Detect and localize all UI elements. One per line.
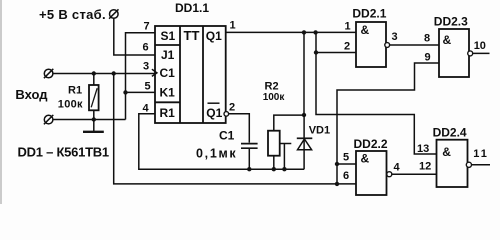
gate DD2.4 (437, 140, 472, 187)
wire DD2.4 output (472, 164, 491, 166)
svg-text:Q1: Q1 (206, 106, 222, 120)
wire DD2.1 out to DD2.3 pin 8 (390, 44, 439, 46)
svg-text:R1: R1 (160, 106, 176, 120)
ground (83, 120, 104, 132)
svg-text:12: 12 (419, 161, 431, 173)
svg-text:DD2.2: DD2.2 (354, 137, 388, 151)
svg-text:R2: R2 (265, 81, 279, 93)
svg-text:DD1.1: DD1.1 (175, 1, 209, 15)
svg-text:Вход: Вход (15, 87, 48, 102)
svg-text:2: 2 (229, 101, 235, 113)
svg-text:10: 10 (474, 40, 486, 52)
diode VD1 (297, 115, 313, 169)
svg-text:C1: C1 (160, 66, 176, 80)
svg-text:1: 1 (345, 21, 351, 33)
svg-text:8: 8 (424, 33, 430, 45)
svg-text:5: 5 (145, 81, 151, 93)
wire reset R1 pin 4 line (139, 114, 304, 172)
svg-text:4: 4 (394, 162, 401, 174)
wire lower terminal to S1/K1 tie (53, 117, 126, 121)
svg-text:4: 4 (143, 103, 150, 115)
resistor R2 (268, 131, 291, 170)
svg-text:R1: R1 (68, 85, 82, 97)
svg-text:0,1мк: 0,1мк (196, 147, 237, 161)
svg-text:3: 3 (392, 31, 398, 43)
svg-text:9: 9 (425, 52, 431, 64)
svg-text:1: 1 (230, 20, 236, 32)
svg-text:J1: J1 (161, 48, 175, 62)
svg-text:2: 2 (344, 41, 350, 53)
svg-text:K1: K1 (160, 86, 176, 100)
svg-text:DD2.3: DD2.3 (434, 15, 468, 29)
wire input rail to DD2.2 pin 5 and DD2.3 pin 9 (335, 63, 439, 184)
gate DD2.3 (439, 29, 473, 77)
svg-text:DD2.4: DD2.4 (433, 126, 467, 140)
svg-text:&: & (442, 145, 451, 159)
IC DD1.1 (152, 26, 229, 123)
svg-text:DD1 – К561ТВ1: DD1 – К561ТВ1 (18, 145, 109, 160)
svg-text:+5 В стаб.: +5 В стаб. (39, 7, 106, 22)
svg-text:DD2.1: DD2.1 (352, 7, 386, 21)
wire S1/K1 tie to lower rail (123, 33, 155, 120)
svg-text:&: & (361, 23, 370, 37)
terminal input upper (44, 69, 53, 78)
wire DD2.3 output (473, 52, 490, 54)
wire input to C1 pin 3 (53, 71, 155, 75)
resistor R1 (89, 74, 99, 120)
wire Q1 branch to R2/VD1 top (302, 32, 306, 117)
gate DD2.1 (356, 22, 390, 67)
wire Q1 pin 1 to DD2.1 pin 1 (226, 30, 356, 34)
terminal +5V (109, 9, 118, 18)
svg-text:7: 7 (144, 20, 150, 32)
wire Q1 branch to DD2.1 pin 2 and DD2.4 pin 13 (314, 32, 437, 154)
svg-text:3: 3 (143, 61, 149, 73)
scan edge artifact (0, 0, 2, 204)
svg-text:6: 6 (143, 42, 149, 54)
capacitor C1 (241, 144, 258, 170)
svg-text:13: 13 (417, 143, 429, 155)
svg-text:C1: C1 (219, 129, 235, 143)
wire Q1bar pin 2 to C1 (229, 114, 249, 143)
svg-text:100к: 100к (263, 92, 286, 103)
svg-text:S1: S1 (161, 29, 176, 43)
wire R2 top (274, 115, 304, 131)
svg-text:ТТ: ТТ (184, 28, 200, 43)
terminal input lower (44, 115, 53, 124)
svg-text:5: 5 (343, 152, 349, 164)
svg-text:&: & (443, 33, 452, 47)
svg-text:100к: 100к (58, 99, 83, 111)
svg-text:&: & (361, 152, 370, 166)
svg-text:Q1: Q1 (206, 29, 222, 43)
wire +5V to J1 pin 6 (114, 18, 155, 55)
svg-text:6: 6 (343, 170, 349, 182)
svg-text:11: 11 (473, 148, 489, 160)
svg-text:VD1: VD1 (309, 125, 330, 137)
wire DD2.2 out to DD2.4 pin 12 (392, 173, 437, 175)
wire input down and bottom rail to DD2.2 pin 6 (114, 74, 356, 187)
gate DD2.2 (356, 151, 392, 195)
